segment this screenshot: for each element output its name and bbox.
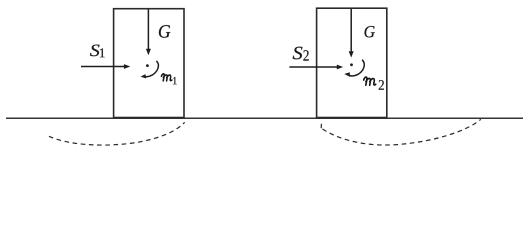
dashed arc under block 2 bbox=[323, 119, 481, 145]
label S1 bbox=[90, 45, 99, 57]
block 2 (right rectangle) bbox=[317, 8, 387, 117]
small tick below block 2 bottom-left corner bbox=[320, 124, 322, 128]
label S1 subscript 1 bbox=[100, 48, 105, 57]
label G (figure 2) bbox=[365, 26, 375, 37]
label m2 subscript 2 bbox=[379, 80, 384, 90]
label m2 (script m with subscript 2) bbox=[364, 77, 376, 85]
dashed arc under block 1 bbox=[49, 122, 185, 145]
weight force arrow G (figure 2) bbox=[349, 9, 354, 58]
label G (figure 1) bbox=[159, 25, 170, 38]
center-of-mass dot (figure 1) bbox=[146, 64, 149, 67]
label S2 bbox=[293, 47, 303, 60]
force arrow S2 bbox=[289, 65, 343, 70]
block 1 (left rectangle) bbox=[114, 9, 184, 118]
center-of-mass dot (figure 2) bbox=[350, 63, 353, 66]
weight force arrow G (figure 1) bbox=[146, 10, 151, 56]
label S2 subscript 2 bbox=[303, 50, 308, 60]
label m1 (script m with subscript 1) bbox=[161, 74, 171, 81]
moment arc m1 (curved arrow) bbox=[141, 61, 159, 79]
label m1 subscript 1 bbox=[173, 77, 177, 84]
force arrow S1 bbox=[81, 64, 130, 69]
ground line bbox=[6, 117, 523, 119]
moment arc m2 (curved arrow) bbox=[344, 60, 364, 77]
